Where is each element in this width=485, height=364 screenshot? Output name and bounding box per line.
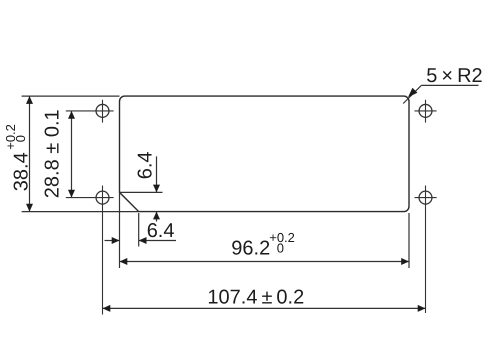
dimension 28.8 ± 0.1 : hole spacing, left side: [71, 111, 73, 198]
mounting hole bottom-right: [415, 186, 437, 314]
dimension 107.4 ± 0.2 : mounting hole spacing, bottom: [103, 307, 426, 309]
dimension 96.2 +0.2/0 : cutout width: [120, 213, 410, 268]
dimension 6.4 horizontal : notch width: [105, 192, 177, 268]
mounting hole bottom-left: [66, 186, 114, 315]
dimension 38.4 +0.2/0 : overall height, left side: [22, 96, 139, 212]
svg-text:28.8 ± 0.1: 28.8 ± 0.1: [42, 109, 64, 198]
leader callout 5 x R2 : corner radius: [403, 85, 478, 103]
svg-text:5 × R2: 5 × R2: [426, 65, 482, 87]
dimension 6.4 vertical : notch height: [120, 156, 163, 221]
svg-text:107.4 ± 0.2: 107.4 ± 0.2: [207, 286, 304, 308]
panel cutout outline (rounded rect with chamfered notch, 5 x R2 corners): [120, 96, 410, 212]
mounting hole top-left: [66, 100, 114, 123]
svg-text:6.4: 6.4: [147, 220, 175, 242]
mounting hole top-right: [415, 100, 437, 123]
svg-text:6.4: 6.4: [134, 151, 156, 179]
